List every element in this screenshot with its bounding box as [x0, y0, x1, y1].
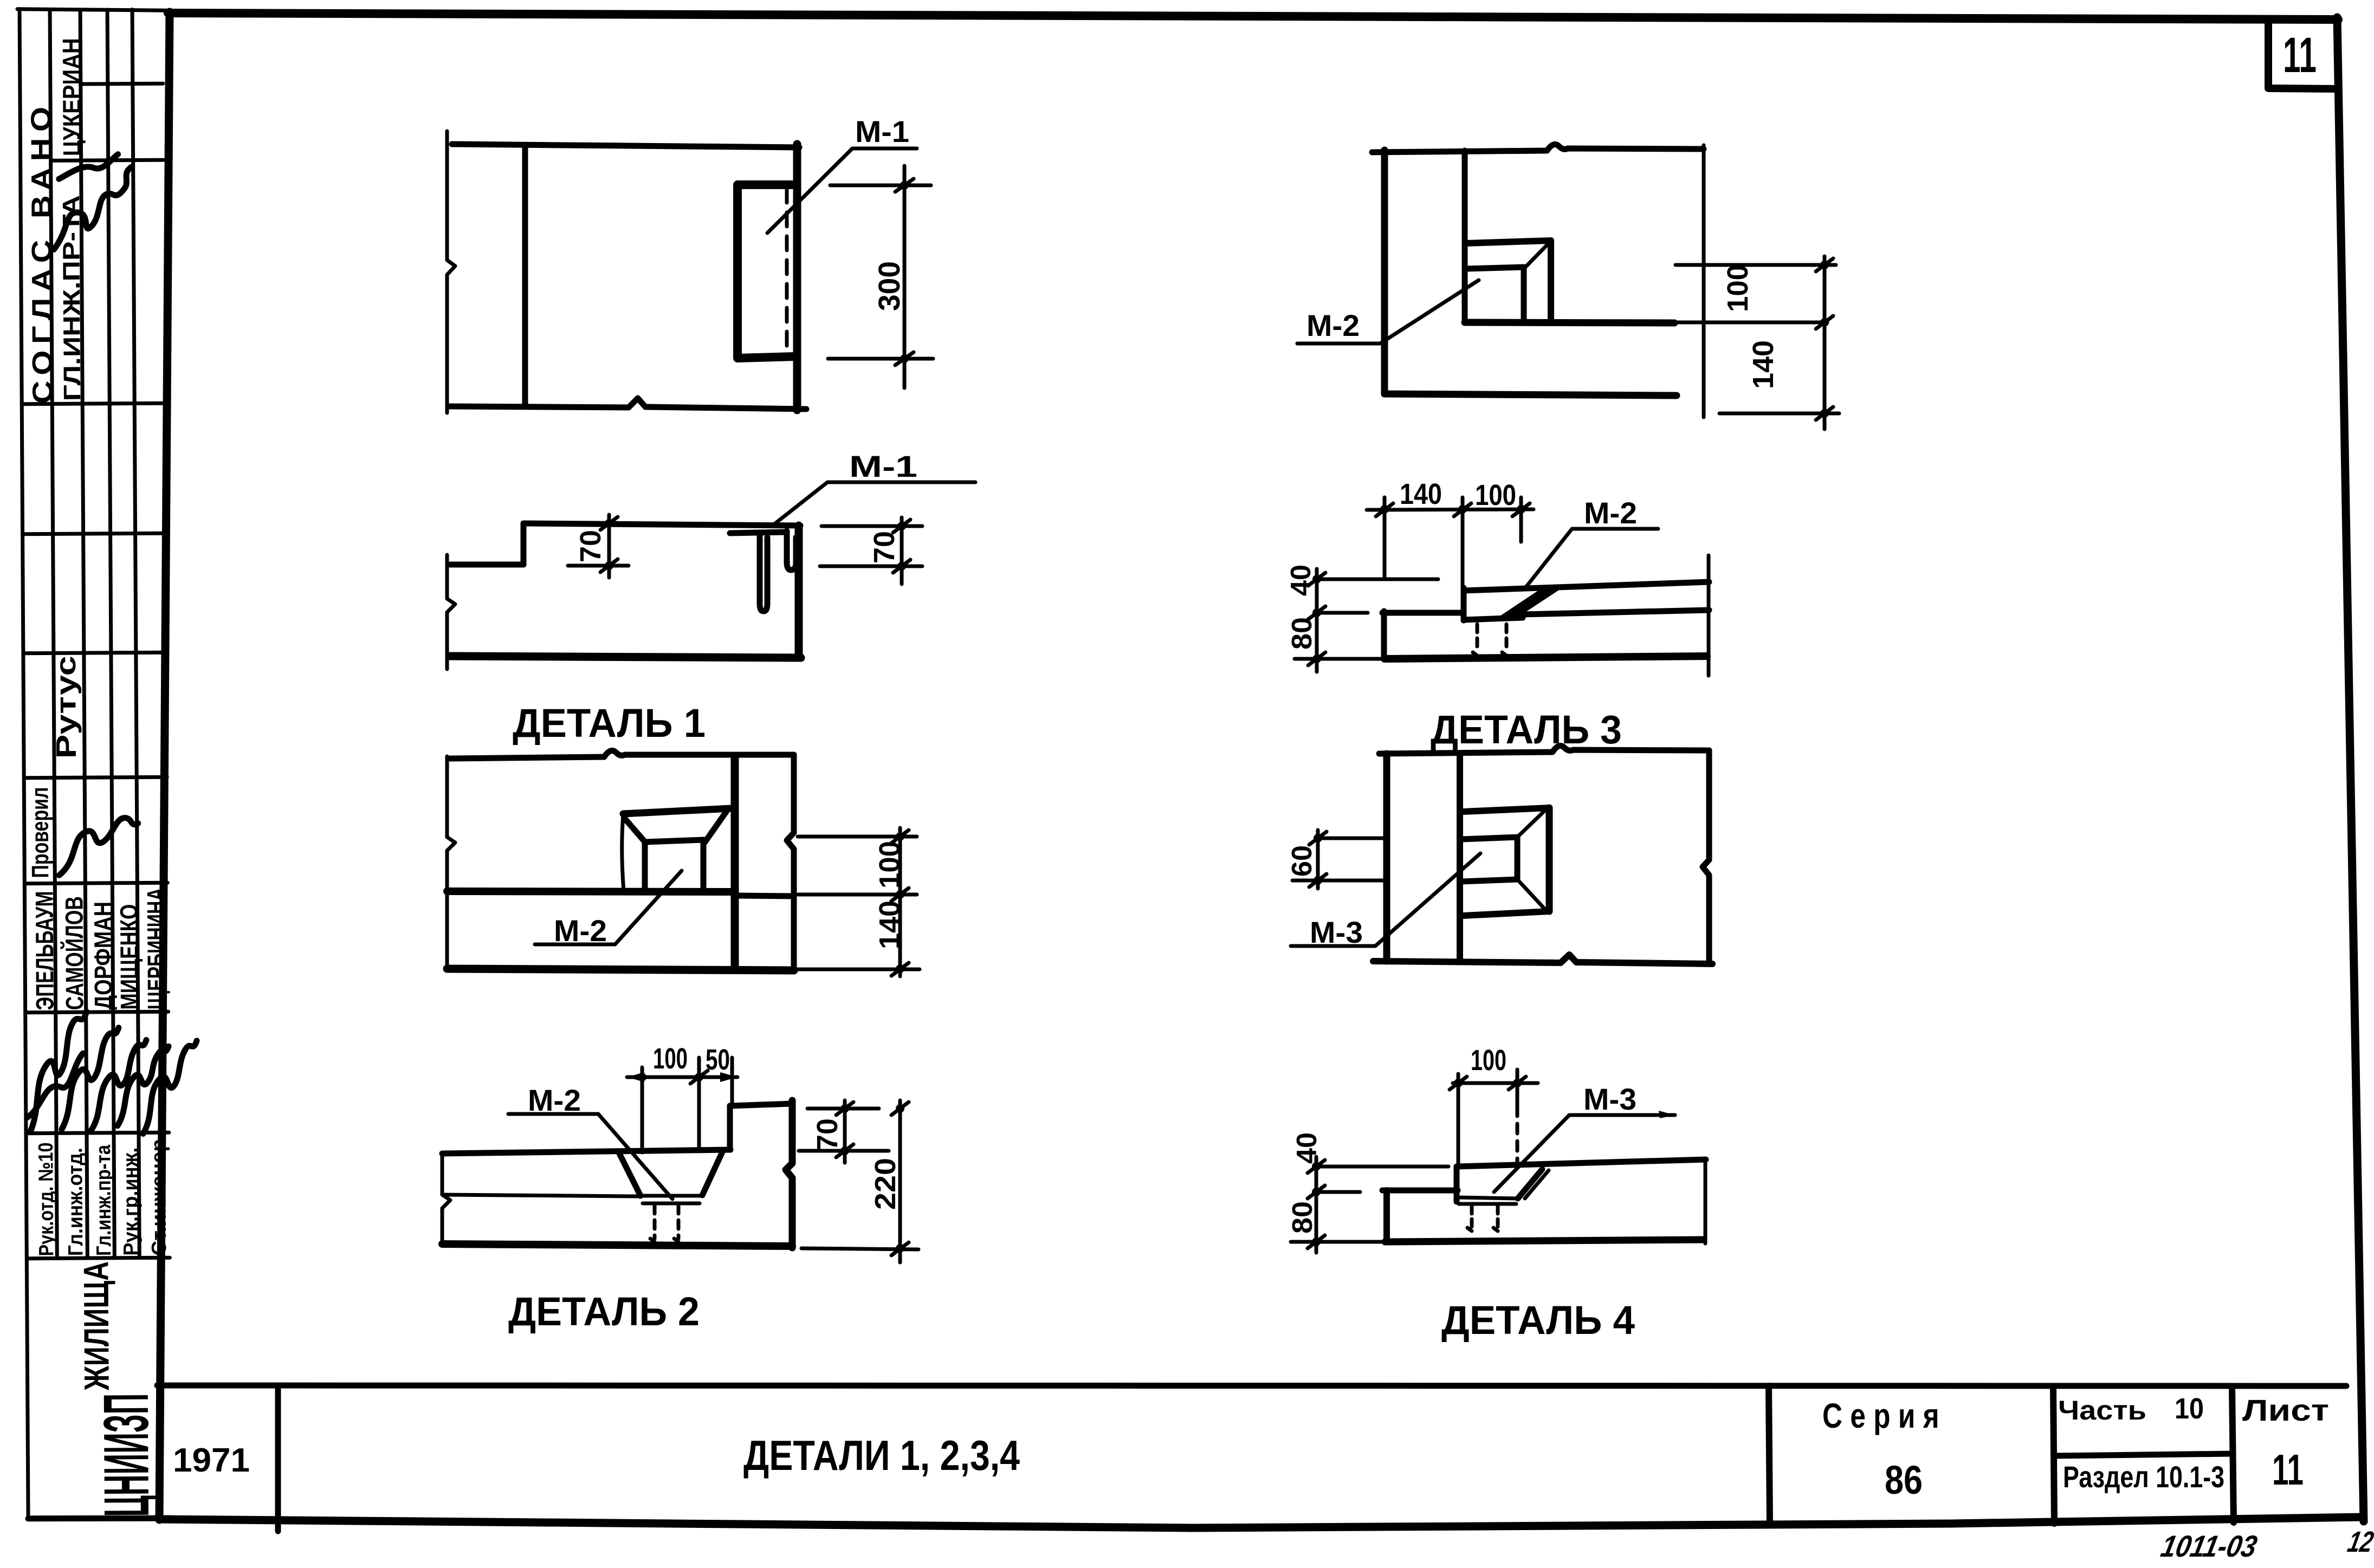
- socket M-3 inner bottom D4P: [1461, 879, 1517, 882]
- dim 60 tick bottom D4P: [1309, 874, 1327, 887]
- dim 60 ext bottom D4P: [1292, 879, 1386, 883]
- svg-text:100: 100: [653, 1042, 688, 1075]
- sidebar row line y1205: [23, 652, 166, 653]
- anchor plate top bar M-1 D1S: [730, 532, 787, 533]
- dim 300 extension bottom D1P: [828, 357, 933, 361]
- DETAIL 1 SECTION VIEW: [447, 449, 975, 746]
- dim 70 ext bottom D2S: [799, 1149, 889, 1153]
- dim left line D4S: [1315, 1157, 1318, 1253]
- svg-text:Раздел 10.1-3: Раздел 10.1-3: [2063, 1460, 2224, 1494]
- socket bottom plate line D2S: [643, 1202, 700, 1206]
- wall right extension line D3P: [1702, 145, 1706, 417]
- dim tick a D3S: [1376, 503, 1393, 516]
- leader M-1 D1S: [774, 482, 975, 524]
- svg-text:11: 11: [2283, 28, 2317, 83]
- DETAIL 2 SECTION VIEW: [442, 1042, 918, 1334]
- socket M-3 outer right D4P: [1546, 808, 1553, 911]
- dimension tick blobs: [605, 181, 1829, 1253]
- anchor dashed left D4S: [1467, 1206, 1472, 1231]
- dim left tick b D4S: [1308, 1185, 1325, 1198]
- sidebar column line 2: [80, 10, 87, 1258]
- svg-text:Серия: Серия: [1822, 1396, 1947, 1435]
- dim 70 tick top D2S: [836, 1102, 853, 1115]
- dim 70 right extension top D1S: [821, 524, 922, 528]
- socket M-3 outer bottom D4P: [1463, 911, 1549, 916]
- dim tick 3 D2P: [891, 963, 909, 976]
- wall top line D3P with break mark: [1372, 144, 1704, 152]
- socket M-2 outer right D3P: [1548, 241, 1554, 321]
- partition right edge D3P: [1462, 151, 1468, 321]
- dim line 100-50 D2S: [627, 1075, 738, 1079]
- socket M-2 inner right D2P: [701, 840, 707, 889]
- dim tick 1 D3P: [1816, 258, 1833, 271]
- dim left ext a D3S: [1321, 578, 1438, 581]
- dim 60 tick top D4P: [1309, 832, 1327, 845]
- svg-text:100: 100: [1722, 264, 1754, 312]
- plate M-3 slant right D4S: [1518, 1169, 1542, 1198]
- plate M-3 bottom double D4S: [1457, 1197, 1518, 1198]
- svg-text:ДЕТАЛЬ 1: ДЕТАЛЬ 1: [513, 701, 706, 746]
- anchor dashed right D4S: [1493, 1206, 1498, 1231]
- plate M-2 left edge D3S: [1461, 588, 1467, 620]
- anchor dashed left D3S: [1473, 624, 1477, 656]
- dim 70 line D2S: [843, 1100, 847, 1163]
- slab bottom line right D3S: [1522, 610, 1709, 614]
- socket slant right D2S: [702, 1151, 723, 1195]
- svg-text:САМОЙЛОВ: САМОЙЛОВ: [60, 896, 88, 1010]
- dim 70 left tick bottom D1S: [600, 559, 618, 572]
- slab right end edge D3S: [1707, 555, 1711, 676]
- title block divider Часть/Раздел: [2054, 1454, 2233, 1456]
- svg-text:1011-03: 1011-03: [2158, 1530, 2260, 1563]
- svg-text:М-2: М-2: [1306, 308, 1360, 342]
- dim ext line b D2S: [697, 1058, 701, 1151]
- frame left border: [159, 12, 170, 1520]
- wall top step D2S: [730, 1104, 792, 1106]
- dim left ext c D3S: [1295, 657, 1385, 661]
- frame right border: [2337, 17, 2364, 1521]
- dim left tick b D3S: [1308, 606, 1325, 619]
- svg-text:ДЕТАЛЬ 2: ДЕТАЛЬ 2: [508, 1289, 700, 1334]
- wall face left D2S: [727, 1106, 733, 1150]
- dim 70 right line D1S: [900, 517, 904, 584]
- svg-text:100: 100: [1471, 1044, 1506, 1077]
- anchor dashed right D3S: [1502, 624, 1506, 656]
- svg-text:М-3: М-3: [1310, 915, 1363, 949]
- sidebar row line y1868: [25, 1012, 169, 1013]
- svg-text:10: 10: [2175, 1392, 2204, 1425]
- anchor pin D1S: [760, 535, 767, 611]
- dim 220 tick bottom D2S: [891, 1242, 909, 1255]
- signature Цукерман scribble: [54, 167, 133, 250]
- svg-text:220: 220: [869, 1158, 902, 1210]
- partition right edge D4P: [1457, 754, 1463, 961]
- dim 220 line D2S: [898, 1100, 902, 1262]
- dim line 100 D4S: [1453, 1081, 1538, 1085]
- wall face line right D2P: [738, 896, 794, 896]
- DETAIL 3 SECTION VIEW: [1285, 478, 1709, 752]
- wall face line D3P: [1465, 322, 1674, 323]
- sidebar row line y2322: [27, 1258, 170, 1259]
- svg-text:Гл.инж.отд.: Гл.инж.отд.: [64, 1148, 87, 1256]
- dim ext line a D2S: [641, 1067, 644, 1152]
- signature scribble col2: [61, 1028, 119, 1130]
- dim 220 tick top D2S: [891, 1102, 909, 1115]
- svg-text:300: 300: [872, 261, 906, 311]
- title block top line: [157, 1385, 2346, 1386]
- sidebar row line y155: [81, 82, 163, 86]
- dim tick 3 D3P: [1816, 407, 1833, 420]
- socket M-3 slant top D4P: [1517, 810, 1545, 837]
- leader M-3 D4S: [1494, 1115, 1675, 1192]
- socket bottom line D2S: [639, 1194, 702, 1198]
- dim right ext bottom D2P: [795, 968, 920, 971]
- wall top line D3S: [1382, 610, 1464, 616]
- signature scribble col4: [117, 1046, 169, 1126]
- svg-text:М-2: М-2: [1584, 496, 1637, 530]
- dim tick c D3S: [1512, 503, 1530, 516]
- dim 70 tick bottom D2S: [836, 1144, 853, 1157]
- svg-text:140: 140: [874, 900, 906, 949]
- dim 70 left tick top D1S: [600, 517, 618, 530]
- dim left tick c D3S: [1308, 652, 1325, 665]
- dim ext mid D3P: [1657, 321, 1827, 325]
- hidden dashed line of plate D1P: [785, 189, 789, 355]
- dim 100 tick left D4S: [1450, 1077, 1467, 1090]
- socket M-3 inner top D4P: [1461, 837, 1517, 839]
- dim 220 ext bottom D2S: [801, 1248, 918, 1249]
- title block divider Часть cell left: [2053, 1386, 2054, 1524]
- svg-text:М-1: М-1: [855, 114, 909, 148]
- socket M-2 inner top D3P: [1466, 267, 1524, 269]
- socket M-2 outer left D2P: [622, 814, 624, 891]
- dim left tick c D4S: [1308, 1235, 1325, 1248]
- wall face line left D2P: [447, 891, 732, 892]
- title block divider 1971 cell: [275, 1386, 281, 1531]
- socket M-2 inner top D2P: [645, 840, 703, 842]
- dim left line D3S: [1315, 569, 1319, 672]
- sidebar row line y2091: [26, 1132, 169, 1133]
- leader M-1 D1P: [767, 148, 917, 233]
- dim ext bottom D3P: [1719, 412, 1839, 416]
- svg-text:70: 70: [574, 530, 607, 562]
- svg-text:100: 100: [1475, 479, 1516, 511]
- dim left ext a D4S: [1321, 1165, 1448, 1169]
- dim 70 left extension D1S: [568, 564, 629, 568]
- dim arrow left D2S: [627, 1072, 644, 1082]
- sidebar row line y1630: [24, 883, 167, 884]
- wall top line D2P with break mark: [450, 750, 794, 759]
- dim tick 2 D3P: [1816, 316, 1833, 329]
- dim ext right dashed D4S: [1516, 1106, 1519, 1166]
- dim tick 1 D2P: [891, 830, 909, 843]
- dim 60 line D4P: [1316, 830, 1320, 889]
- dim 70 right tick top D1S: [893, 520, 910, 533]
- svg-text:ЭПЕЛЬБАУМ: ЭПЕЛЬБАУМ: [30, 891, 59, 1010]
- socket M-2 corner slant D3P: [1524, 243, 1549, 269]
- slab right end edge D4S: [1704, 1159, 1707, 1243]
- TITLE BLOCK: [157, 1385, 2346, 1531]
- plate M-2 slanted body D3S: [1497, 586, 1561, 620]
- wall bottom line D2P: [447, 969, 794, 970]
- plate M-3 left edge D4S: [1454, 1167, 1460, 1202]
- sidebar row line y296: [51, 160, 164, 160]
- svg-text:М-2: М-2: [554, 913, 607, 948]
- dim 300 tick top D1P: [895, 179, 914, 192]
- socket M-2 inner left D2P: [642, 842, 648, 890]
- title block divider Лист cell left: [2232, 1387, 2234, 1522]
- step riser vertical D1S: [521, 523, 527, 565]
- socket M-3 inner right D4P: [1515, 837, 1521, 879]
- slab top line D3S: [1464, 582, 1709, 591]
- dim ext line c D2S: [730, 1058, 734, 1107]
- anchor dashed right D2S: [674, 1205, 678, 1242]
- DETAIL 4 PLAN VIEW: [1286, 746, 1712, 964]
- svg-text:140: 140: [1747, 340, 1780, 389]
- dim line top D3S: [1367, 509, 1534, 510]
- svg-text:1971: 1971: [173, 1442, 250, 1479]
- svg-text:80: 80: [1287, 1201, 1318, 1234]
- DETAIL 4 SECTION VIEW: [1287, 1044, 1706, 1343]
- svg-text:ДЕТАЛЬ 3: ДЕТАЛЬ 3: [1431, 707, 1622, 752]
- sidebar row line y745: [22, 403, 165, 404]
- slab ledge line D2S: [442, 1195, 639, 1196]
- svg-text:Ст.инженер: Ст.инженер: [147, 1139, 171, 1255]
- svg-text:ДОРФМАН: ДОРФМАН: [89, 902, 118, 1010]
- dim left tick a D4S: [1308, 1160, 1325, 1173]
- svg-text:ЩЕРБИНИНА: ЩЕРБИНИНА: [141, 887, 170, 1009]
- panel right edge D1S: [795, 526, 803, 657]
- svg-text:86: 86: [1885, 1457, 1923, 1502]
- leader arrow M-3 D4S: [1659, 1111, 1675, 1118]
- wall top line D1P: [452, 144, 799, 147]
- dim 70 right tick bottom D1S: [893, 560, 910, 573]
- dim line right D3P: [1823, 256, 1827, 429]
- slab top line D4S: [1457, 1159, 1706, 1167]
- dim 100 tick right D4S: [1509, 1077, 1526, 1090]
- dim ext left D4S: [1457, 1074, 1460, 1166]
- wall break line left D1P: [447, 131, 455, 413]
- wall left edge D3S: [1381, 611, 1387, 659]
- dim right ext top D2P: [798, 835, 917, 839]
- svg-text:11: 11: [2272, 1446, 2304, 1494]
- svg-text:70: 70: [868, 531, 901, 563]
- sidebar column line 4: [132, 10, 139, 1258]
- DETAIL 1 PLAN VIEW: [447, 114, 933, 413]
- anchor hook J right D1S: [787, 531, 796, 570]
- wall top line D4S: [1382, 1188, 1458, 1194]
- wall right edge D4P with break: [1703, 750, 1709, 964]
- wall top line D4P with break mark: [1379, 746, 1709, 754]
- svg-text:ЖИЛИЩА: ЖИЛИЩА: [76, 1261, 117, 1391]
- dim left ext b D3S: [1321, 611, 1368, 615]
- socket M-3 slant bottom D4P: [1517, 879, 1545, 909]
- sidebar bottom edge: [28, 1518, 171, 1519]
- svg-text:Рутус: Рутус: [50, 656, 82, 759]
- signature scribble col5: [143, 1041, 197, 1134]
- svg-text:ГЛ.ИНЖ.ПР-ТА: ГЛ.ИНЖ.ПР-ТА: [58, 195, 86, 401]
- partition left edge D4P: [1383, 754, 1390, 961]
- partition wall edge D2P: [731, 756, 739, 969]
- dim arrow right D2S: [720, 1072, 738, 1082]
- svg-text:40: 40: [1291, 1132, 1323, 1164]
- leader M-2 D2P: [535, 871, 682, 944]
- panel bottom line D1S: [450, 656, 801, 658]
- step ledge horizontal D1S: [450, 562, 523, 568]
- svg-text:60: 60: [1286, 845, 1318, 877]
- svg-text:ЦУКЕРИАН: ЦУКЕРИАН: [57, 38, 86, 156]
- dim 300 extension top D1P: [830, 184, 931, 187]
- svg-text:40: 40: [1285, 565, 1317, 596]
- svg-text:М-2: М-2: [528, 1083, 581, 1117]
- dim right ext mid D2P: [798, 893, 917, 897]
- socket M-3 outer top D4P: [1463, 808, 1549, 812]
- svg-text:Рук.отд. №10: Рук.отд. №10: [35, 1142, 58, 1256]
- wall inner joint line D1P: [522, 145, 528, 406]
- dim 300 tick bottom D1P: [895, 352, 914, 365]
- dim left ext b D4S: [1321, 1190, 1360, 1194]
- wall right edge D2S with break: [786, 1100, 792, 1248]
- wall bottom line D1P with break mark: [450, 398, 806, 409]
- wall slab bottom line D3S: [1385, 656, 1707, 659]
- svg-text:МИЩЕНКО: МИЩЕНКО: [115, 904, 144, 1009]
- dim 70 ext top D2S: [807, 1107, 879, 1111]
- partition left edge D3P: [1381, 150, 1388, 394]
- dim ext b D3S: [1461, 497, 1465, 601]
- dim ext right D4S: [1516, 1070, 1519, 1106]
- sidebar row line y985: [23, 533, 166, 534]
- dim line right D2P: [898, 828, 902, 976]
- leader M-2 D3P: [1297, 280, 1479, 344]
- wall break line left D1S: [447, 555, 455, 669]
- frame bottom border: [159, 1517, 2363, 1528]
- wall break line left D2P: [447, 756, 455, 969]
- svg-text:140: 140: [1400, 478, 1442, 510]
- dim 300 line D1P: [903, 166, 907, 388]
- svg-text:100: 100: [874, 841, 906, 889]
- socket M-2 inner right D3P: [1521, 267, 1527, 321]
- panel top surface D1S: [523, 523, 800, 526]
- svg-text:Рук.гр.инж.: Рук.гр.инж.: [119, 1147, 143, 1255]
- sheet number box 11 top right: [2268, 20, 2338, 89]
- dim 70 left line D1S: [607, 515, 611, 578]
- dim tick b D3S: [1454, 503, 1471, 516]
- dim 70 right extension bottom D1S: [820, 565, 922, 568]
- dim tick mid D2S: [690, 1071, 708, 1084]
- title block divider Серия cell left: [1769, 1386, 1770, 1525]
- anchor dashed left D2S: [650, 1205, 655, 1242]
- svg-text:ЦНИИЗП: ЦНИИЗП: [90, 1393, 162, 1517]
- svg-text:Гл.инж.пр-та: Гл.инж.пр-та: [92, 1144, 115, 1256]
- svg-text:ДЕТАЛИ 1, 2,3,4: ДЕТАЛИ 1, 2,3,4: [743, 1431, 1020, 1479]
- svg-text:Часть: Часть: [2058, 1395, 2146, 1426]
- anchor plate M-1 D1P: [738, 185, 794, 358]
- DETAIL 3 PLAN VIEW: [1297, 144, 1839, 429]
- leader M-2 D3S: [1525, 529, 1658, 588]
- leader M-2 D2S: [508, 1114, 672, 1199]
- slab top line D2S: [442, 1150, 730, 1154]
- svg-text:ДЕТАЛЬ 4: ДЕТАЛЬ 4: [1441, 1298, 1635, 1343]
- svg-text:М-3: М-3: [1583, 1082, 1636, 1116]
- socket M-2 corner slant left D2P: [625, 819, 646, 843]
- DETAIL 2 PLAN VIEW: [447, 750, 920, 976]
- sidebar top edge: [17, 8, 166, 11]
- svg-text:М-1: М-1: [849, 449, 917, 483]
- sidebar row line y1435: [24, 777, 167, 778]
- leader M-3 D4P: [1291, 853, 1480, 946]
- panel edge right D1P: [793, 144, 801, 410]
- signature scribble col1: [30, 1012, 87, 1132]
- svg-text:Лист: Лист: [2242, 1393, 2329, 1427]
- socket M-2 outer top D3P: [1466, 241, 1551, 243]
- sidebar column line 3: [107, 10, 114, 1258]
- dim ext c D3S: [1519, 497, 1523, 542]
- frame top border: [168, 13, 2338, 20]
- wall left edge D4S: [1383, 1190, 1390, 1242]
- signature scribble col3: [90, 1040, 147, 1131]
- dim ext top D3P: [1676, 263, 1836, 267]
- dim 60 ext top D4P: [1321, 837, 1384, 840]
- wall bottom line D4P with break mark: [1373, 955, 1712, 964]
- socket M-2 corner slant right D2P: [705, 811, 727, 842]
- slab bottom line D4S: [1385, 1240, 1703, 1242]
- slab bottom line D2S: [442, 1244, 792, 1246]
- wall right edge D2P with break: [787, 755, 794, 969]
- svg-text:80: 80: [1286, 617, 1318, 650]
- svg-text:Проверил: Проверил: [27, 787, 54, 878]
- wall bottom line D3P: [1385, 394, 1677, 396]
- signature scribble row Проверил: [59, 818, 139, 875]
- socket M-2 outer top D2P: [623, 808, 731, 814]
- SIDEBAR STAMP TABLE: [17, 8, 199, 1519]
- dim ext a D3S: [1383, 497, 1387, 577]
- slab break line left D2S: [442, 1154, 450, 1246]
- dim left tick a D3S: [1308, 573, 1325, 586]
- plate M-2 bottom D3S: [1464, 618, 1523, 620]
- svg-text:70: 70: [811, 1118, 844, 1151]
- sidebar column line 1: [50, 10, 57, 1258]
- dim left ext c D4S: [1291, 1240, 1387, 1244]
- sidebar left border: [20, 9, 28, 1519]
- dim tick 2 D2P: [891, 888, 909, 901]
- socket slant left D2S: [619, 1152, 641, 1196]
